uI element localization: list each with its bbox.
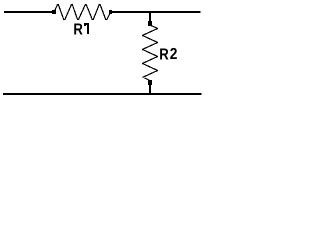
svg-text:R: R: [159, 46, 169, 63]
svg-text:2: 2: [170, 46, 178, 63]
svg-text:R: R: [73, 21, 83, 38]
